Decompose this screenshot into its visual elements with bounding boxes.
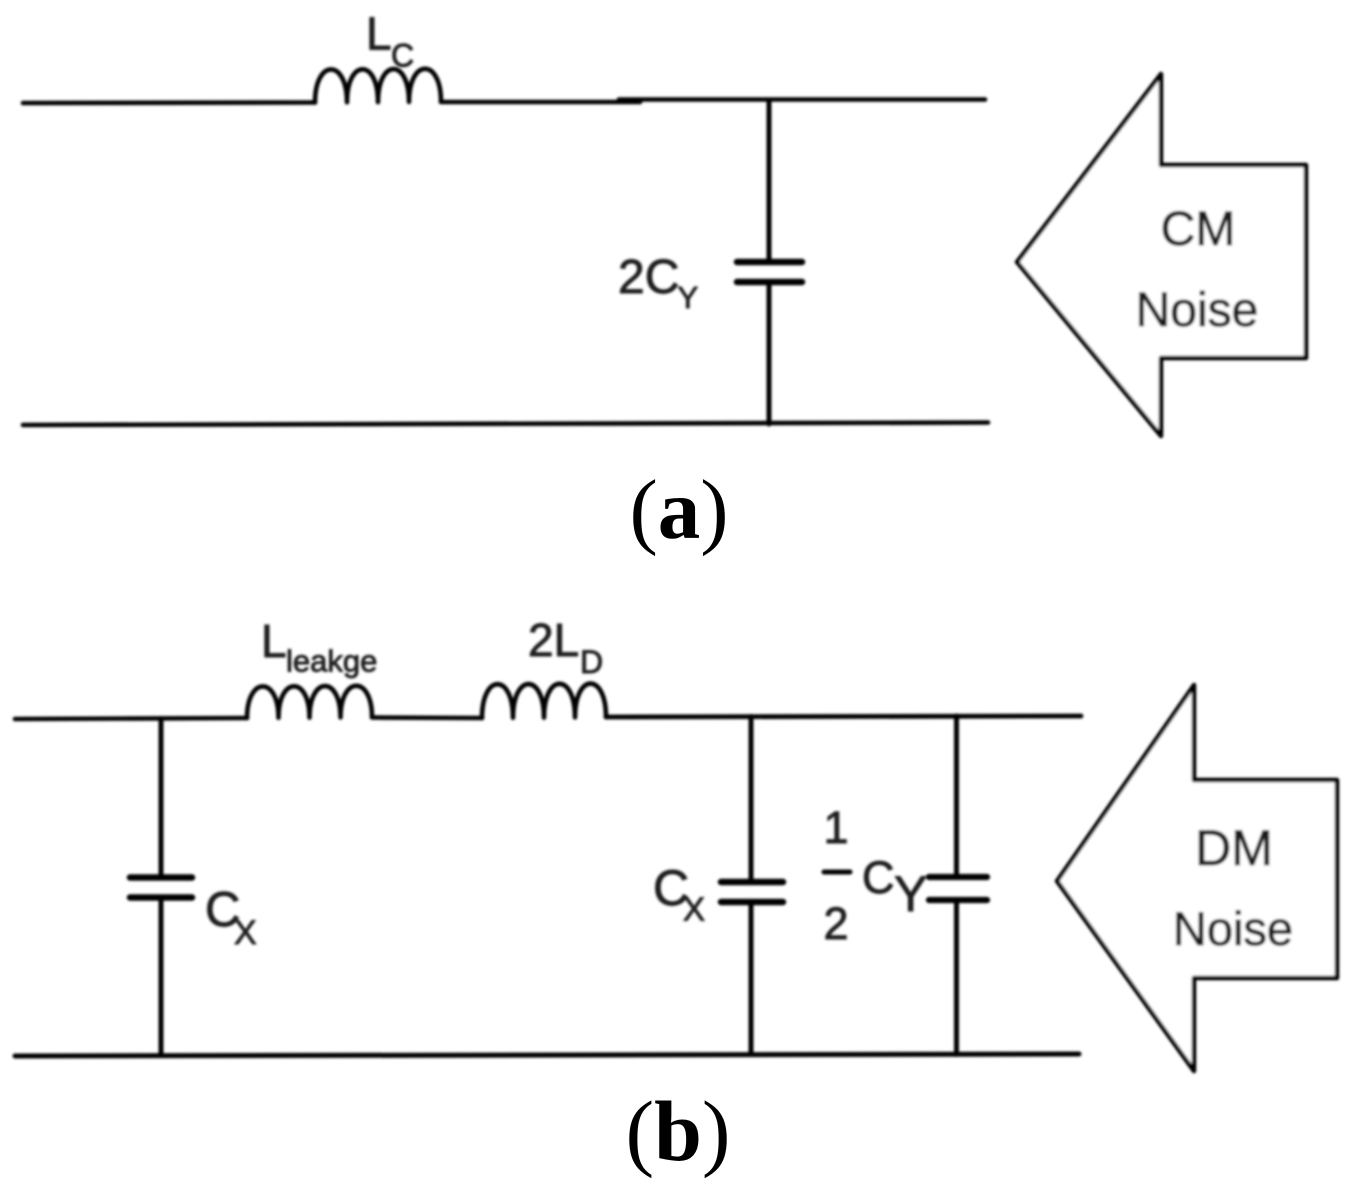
svg-text:DM: DM: [1195, 820, 1273, 876]
capacitor CX2: [721, 882, 783, 902]
svg-text:C: C: [391, 38, 414, 74]
wire top-right of circuit a: [441, 100, 640, 105]
wire capacitor 2CY upper lead: [767, 101, 772, 259]
svg-text:C: C: [862, 852, 895, 903]
svg-text:Noise: Noise: [1173, 902, 1293, 955]
svg-text:2L: 2L: [528, 614, 579, 666]
svg-text:Y: Y: [894, 866, 927, 922]
wire top of circuit b right: [606, 716, 1081, 717]
svg-text:1: 1: [823, 802, 848, 853]
svg-text:Noise: Noise: [1136, 284, 1259, 337]
wire capacitor CX1 upper lead: [159, 719, 164, 875]
svg-text:X: X: [683, 891, 705, 928]
svg-text:D: D: [580, 644, 603, 680]
capacitor CX1: [130, 878, 192, 898]
wire bottom of circuit a: [23, 423, 988, 426]
svg-text:2: 2: [823, 898, 848, 949]
wire capacitor CX2 upper lead: [749, 717, 754, 879]
svg-text:CM: CM: [1161, 203, 1236, 256]
svg-text:X: X: [234, 914, 257, 952]
wire capacitor CX1 lower lead: [159, 901, 164, 1055]
svg-text:L: L: [261, 615, 287, 667]
inductor Lleakge: [247, 686, 372, 718]
capacitor 2CY: [737, 262, 802, 282]
svg-text:Y: Y: [678, 280, 699, 315]
wire top of circuit b left: [15, 718, 247, 719]
svg-text:(a): (a): [629, 463, 728, 557]
svg-text:L: L: [366, 8, 392, 60]
wire capacitor CY half upper lead: [954, 716, 959, 874]
wire top-left of circuit a: [23, 100, 315, 105]
wire capacitor CX2 lower lead: [749, 905, 754, 1055]
svg-text:leakge: leakge: [286, 644, 377, 679]
wire capacitor CY half lower lead: [954, 903, 959, 1055]
CM noise arrow: [1017, 74, 1306, 436]
wire between inductors: [372, 715, 482, 720]
svg-text:2C: 2C: [618, 251, 679, 304]
wire top-right overlap segment of circuit a: [619, 97, 985, 102]
svg-text:(b): (b): [625, 1083, 730, 1179]
fraction bar of 1/2 CY label: [824, 870, 850, 875]
inductor 2LD: [482, 684, 606, 718]
inductor LC: [315, 69, 441, 103]
capacitor CY half: [929, 877, 987, 900]
wire bottom of circuit b: [15, 1054, 1079, 1056]
DM noise arrow: [1057, 685, 1337, 1071]
wire capacitor 2CY lower lead: [767, 285, 772, 424]
